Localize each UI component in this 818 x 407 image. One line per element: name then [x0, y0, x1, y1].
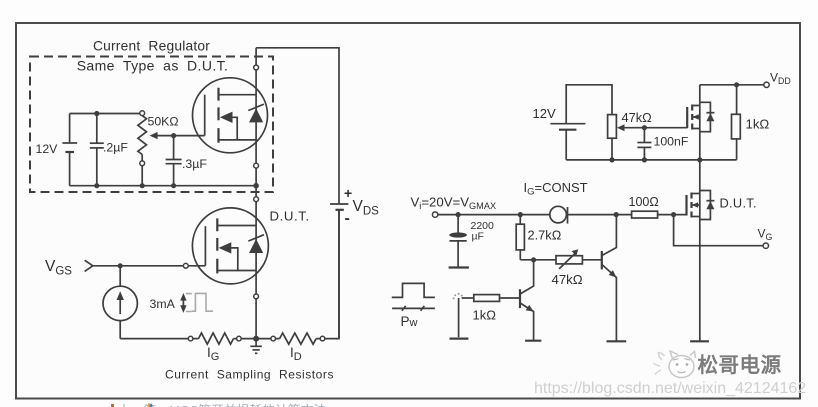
svg-text:Current Regulator: Current Regulator — [93, 39, 210, 54]
svg-text:3mA: 3mA — [150, 297, 176, 311]
terminal VG — [763, 243, 768, 248]
svg-text:1kΩ: 1kΩ — [746, 117, 770, 132]
svg-text:-: - — [345, 210, 350, 227]
svg-text:松哥电源: 松哥电源 — [698, 353, 782, 377]
transistor Q2 substrate arrow — [219, 242, 232, 253]
svg-text:Current Sampling Resistors: Current Sampling Resistors — [165, 368, 334, 382]
current source I2 IG const — [550, 206, 568, 223]
capacitor C4 2200uF — [449, 215, 494, 267]
node center bottom — [253, 336, 259, 342]
dashed enclosure box — [30, 57, 273, 193]
node regulator rail / C1 — [94, 111, 99, 116]
node gate branch — [614, 212, 619, 217]
transistor Q2 gate — [204, 226, 206, 266]
svg-text:2.7kΩ: 2.7kΩ — [528, 228, 562, 243]
capacitor C3 100nF — [637, 128, 688, 160]
op circle DUT MOSFET Q2 — [192, 208, 268, 284]
diode D3 body diode — [700, 102, 711, 131]
svg-text:12V: 12V — [533, 106, 556, 121]
svg-text:.2µF: .2µF — [103, 141, 128, 155]
transistor Q3 vertical tap line — [699, 102, 701, 131]
pulse waveform PW — [392, 283, 435, 329]
logo cat sketch — [654, 351, 696, 378]
wire bottom rail right upper — [566, 159, 736, 161]
svg-text:Same Type as D.U.T.: Same Type as D.U.T. — [77, 58, 229, 74]
svg-text:50KΩ: 50KΩ — [148, 115, 179, 129]
node dotted input — [453, 293, 463, 300]
resistor RD sampling — [280, 333, 317, 344]
transistor Q4 source stub — [692, 216, 700, 218]
transistor Q4 channel — [690, 193, 692, 218]
wire Vi to IG source — [438, 214, 550, 216]
svg-text:D.U.T.: D.U.T. — [720, 196, 757, 211]
wire wiper to gate right — [624, 127, 687, 129]
node rail to drain line — [253, 183, 259, 189]
terminal circle gate — [183, 263, 188, 268]
current source I1 — [103, 266, 137, 339]
transistor Q2 source stub — [217, 270, 256, 272]
transistor Q5 NPN right — [602, 215, 617, 342]
potentiometer R6 47kOhm — [552, 249, 583, 287]
wire 100 Ohm to gate — [658, 214, 687, 216]
resistor R3 1kOhm — [732, 85, 770, 160]
node VGS / current source — [118, 263, 123, 268]
node rail — [609, 157, 614, 162]
node wiper / C3 — [642, 125, 647, 130]
wire input down — [458, 298, 460, 337]
resistor R5 2.7kOhm — [516, 215, 561, 260]
wire DUT drain — [699, 160, 701, 341]
battery V3 12V — [533, 85, 613, 160]
terminal Vi — [432, 212, 437, 217]
wire bottom rail left circuit — [120, 210, 339, 339]
wire wiper to gate — [157, 135, 204, 137]
transistor Q3 substrate arrow — [693, 116, 700, 118]
node VDD rail / R3 — [734, 82, 739, 87]
svg-text:D.U.T.: D.U.T. — [270, 209, 310, 224]
svg-text:100Ω: 100Ω — [629, 195, 659, 209]
ground C4 — [449, 266, 469, 268]
ground Q6 emitter — [525, 340, 541, 342]
diode D1 body diode — [249, 108, 263, 122]
wire main drain-source vertical — [255, 48, 257, 339]
potentiometer R1 50KOhm — [138, 111, 179, 186]
transistor Q1 gate — [204, 95, 206, 136]
resistor RG sampling — [199, 333, 234, 344]
node Vi / C4 — [456, 212, 461, 217]
ground input — [450, 338, 469, 340]
pulse waveform small — [192, 293, 213, 311]
wire VGS to gate — [93, 265, 206, 267]
diode D4 body diode — [700, 191, 711, 220]
battery V2 VDS — [330, 185, 379, 339]
transistor Q2 channel — [216, 218, 218, 273]
svg-text:12V: 12V — [36, 142, 59, 156]
transistor Q4 substrate arrow — [692, 204, 700, 206]
transistor Q3 drain — [692, 85, 700, 106]
resistor R7 1kOhm — [462, 295, 520, 323]
transistor Q1 source stub — [219, 139, 257, 141]
wire regulator bottom rail — [70, 185, 257, 187]
transistor Q3 channel — [691, 105, 693, 130]
svg-text:µF: µF — [472, 231, 484, 243]
transistor Q2 drain stub — [217, 225, 256, 227]
svg-text:47kΩ: 47kΩ — [552, 272, 583, 287]
capacitor C2 .3uF — [166, 136, 208, 186]
capacitor C1 .2uF — [90, 114, 129, 186]
transistor Q4 DUT gate bar — [685, 195, 687, 216]
wire VG branch — [674, 215, 764, 246]
transistor Q3 gate bar — [686, 107, 688, 128]
transistor Q1 drain stub — [219, 94, 257, 96]
resistor R4 100 Ohm — [629, 195, 659, 218]
dimension arrow 3mA — [180, 293, 192, 313]
potentiometer R2 47kOhm — [608, 110, 653, 160]
node collector branch left — [531, 257, 536, 262]
terminal circles sampling resistors — [188, 336, 193, 341]
svg-text:+: + — [344, 185, 352, 201]
wire IG source to 100 Ohm — [568, 214, 632, 216]
terminal VDD — [764, 82, 769, 87]
ground Q5 emitter — [607, 340, 627, 342]
svg-text:https://blog.csdn.net/weixin_4: https://blog.csdn.net/weixin_42124162 — [534, 380, 806, 397]
svg-text:.3µF: .3µF — [182, 157, 207, 171]
wire 2.7k to 47k pot — [520, 259, 556, 261]
wire top rail regulator — [70, 113, 140, 115]
transistor Q3 source — [692, 129, 700, 160]
diode D2 body diode — [249, 239, 263, 253]
node wiper / C2 — [171, 133, 176, 138]
wire 47k to base — [582, 259, 601, 261]
svg-text:1kΩ: 1kΩ — [473, 308, 497, 323]
input chevron VGS — [85, 260, 93, 271]
wire VDD rail — [700, 84, 764, 86]
ground left circuit — [250, 339, 261, 354]
wire top loop to VDS — [256, 48, 339, 204]
battery V1 12V — [36, 114, 78, 186]
svg-text:Pw: Pw — [401, 314, 418, 329]
transistor Q1 channel — [217, 88, 219, 143]
svg-text:47kΩ: 47kΩ — [622, 110, 653, 125]
op circle regulator MOSFET Q1 — [193, 78, 268, 153]
ground DUT source — [690, 340, 709, 342]
transistor Q6 NPN left — [520, 260, 534, 340]
svg-text:100nF: 100nF — [654, 135, 689, 149]
node 2.7k top — [518, 212, 523, 217]
node terminal circles on vertical — [254, 65, 259, 70]
transistor Q4 drain stub — [692, 193, 700, 195]
node VG branch — [671, 212, 676, 217]
transistor Q1 substrate arrow — [220, 112, 233, 123]
